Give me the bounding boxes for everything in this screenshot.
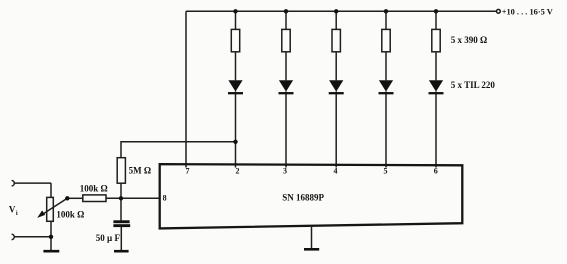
- svg-text:4: 4: [334, 166, 338, 175]
- svg-text:5 x TIL 220: 5 x TIL 220: [451, 80, 496, 90]
- svg-text:100k Ω: 100k Ω: [56, 209, 84, 219]
- svg-text:6: 6: [434, 166, 438, 175]
- svg-text:5M Ω: 5M Ω: [129, 165, 151, 175]
- svg-text:8: 8: [163, 193, 167, 202]
- svg-text:7: 7: [186, 166, 190, 175]
- svg-text:SN 16889P: SN 16889P: [282, 192, 324, 202]
- svg-text:3: 3: [283, 166, 287, 175]
- svg-text:i: i: [16, 210, 18, 217]
- svg-text:50 µ F: 50 µ F: [96, 233, 121, 243]
- svg-text:5 x 390 Ω: 5 x 390 Ω: [451, 35, 487, 45]
- svg-text:2: 2: [236, 166, 240, 175]
- svg-text:5: 5: [384, 166, 388, 175]
- svg-text:V: V: [9, 204, 16, 214]
- svg-text:100k Ω: 100k Ω: [80, 183, 108, 193]
- svg-text:+10 . . . 16·5 V: +10 . . . 16·5 V: [502, 8, 553, 17]
